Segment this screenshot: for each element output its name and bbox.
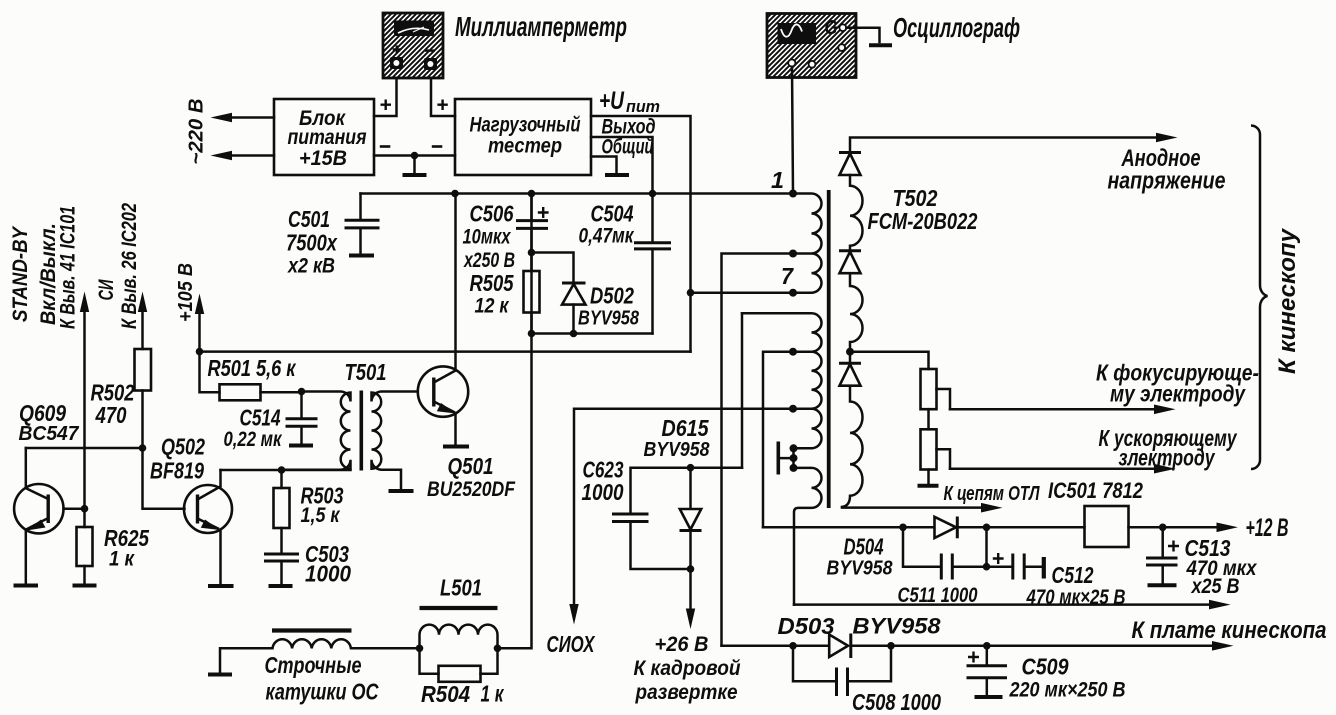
svg-text:К кадровой: К кадровой: [634, 657, 741, 680]
svg-text:1000: 1000: [582, 479, 624, 505]
capacitor C501: [345, 194, 380, 256]
resistor R503: [274, 470, 290, 552]
junction dot L501 right: [494, 645, 502, 653]
inductor L501: [420, 608, 498, 648]
svg-text:470: 470: [95, 402, 127, 428]
diode D502: [532, 253, 586, 334]
junction dot pin 7: [789, 289, 797, 297]
svg-text:D504: D504: [844, 534, 884, 560]
diode D504: [935, 517, 1085, 539]
minus sign right: [432, 145, 443, 148]
junction dot bus x531.5: [528, 190, 536, 198]
capacitor C623: [612, 514, 691, 569]
svg-text:BC547: BC547: [19, 423, 80, 445]
junction dot tap y408: [789, 405, 797, 413]
IC501 regulator box: [1085, 506, 1129, 547]
svg-text:х250 В: х250 В: [463, 249, 515, 272]
AC mains arrow lower: [228, 154, 274, 157]
oscilloscope probe wire to node 1: [792, 67, 793, 194]
svg-text:C501: C501: [288, 206, 330, 232]
junction dot R502 bottom: [139, 444, 147, 452]
wire tap y351 to +12V rail riser: [763, 352, 793, 528]
wire node to Q502 base: [143, 448, 185, 509]
svg-text:BF819: BF819: [150, 458, 204, 484]
svg-text:R504: R504: [421, 681, 470, 707]
svg-text:BYV958: BYV958: [578, 308, 640, 330]
wire D615 node line: [631, 468, 743, 512]
svg-text:х25 В: х25 В: [1191, 575, 1240, 598]
ground deflection coils: [208, 673, 232, 677]
junction dot HV tap: [846, 348, 854, 356]
junction dot pin tap mid: [789, 250, 797, 258]
svg-text:развертке: развертке: [635, 681, 738, 704]
svg-text:К плате кинескопа: К плате кинескопа: [1132, 617, 1327, 644]
junction dot C509 node: [983, 642, 991, 650]
load tester box Нагрузочный тестер: [455, 99, 591, 175]
wire СИОХ branch: [574, 409, 793, 608]
svg-text:0,47мк: 0,47мк: [579, 225, 635, 248]
capacitor C504: [634, 194, 671, 334]
wire milliammeter right lead to load tester +: [431, 78, 455, 116]
capacitor C508: [793, 646, 891, 696]
minus wire power supply to load tester: [374, 154, 455, 157]
resistor R505: [524, 253, 540, 334]
junction dot +105V node: [196, 348, 204, 356]
junction dot C513 node: [1159, 524, 1167, 532]
resistor R504: [420, 648, 498, 682]
svg-text:~220 В: ~220 В: [186, 99, 208, 165]
wire +Uпит output: [591, 116, 691, 352]
svg-text:BYV958: BYV958: [644, 439, 711, 461]
wire lower winding to unlabeled arrow: [794, 603, 1215, 606]
wire D504 node down: [985, 527, 988, 566]
transformer T502 core: [827, 190, 831, 508]
svg-text:+U: +U: [599, 87, 625, 115]
svg-text:12 к: 12 к: [475, 295, 510, 318]
T502 lower primary winding: [742, 313, 822, 604]
wire HV tap to focus divider: [850, 352, 929, 369]
svg-text:Миллиамперметр: Миллиамперметр: [455, 11, 627, 42]
svg-text:Строчные: Строчные: [265, 652, 362, 678]
svg-text:220 мк×250 В: 220 мк×250 В: [1009, 679, 1126, 702]
wire pin mid tap to x721 riser: [722, 254, 794, 646]
junction dot bus x652.5 (Выход/C504): [649, 190, 657, 198]
+12V rail wire: [763, 526, 934, 529]
svg-text:G: G: [825, 17, 838, 39]
wire milliammeter left lead to power supply +: [374, 78, 397, 116]
power supply box Блок питания +15В: [274, 99, 374, 175]
junction dot R501/C514/T501 node: [298, 388, 306, 396]
junction dot bus x455: [451, 190, 459, 198]
svg-text:10мкх: 10мкх: [463, 226, 512, 249]
label СИ К Выв. 26 IC202 (rotated): [95, 203, 141, 329]
svg-text:напряжение: напряжение: [1108, 168, 1226, 195]
capacitor C506: [516, 194, 549, 253]
svg-text:питания: питания: [288, 126, 367, 149]
focus electrode arrow: [950, 408, 1160, 411]
svg-text:Q502: Q502: [161, 434, 205, 460]
junction dot L501 left: [416, 645, 424, 653]
svg-text:К кинескопу: К кинескопу: [1274, 227, 1301, 374]
svg-text:L501: L501: [440, 575, 482, 601]
svg-text:C509: C509: [1022, 654, 1069, 680]
junction dot D504 anode node: [899, 524, 907, 532]
svg-text:Нагрузочный: Нагрузочный: [470, 114, 581, 137]
К цепям ОТЛ arrow: [842, 506, 987, 509]
junction dot Q609 base: [81, 505, 89, 513]
wire node below R505: [532, 332, 653, 335]
stand-by arrow wire: [83, 308, 86, 509]
winding tap bar symbol: [778, 442, 797, 475]
wire IC501 output to +12V arrow: [1129, 526, 1223, 529]
capacitor C511: [903, 527, 987, 579]
milliammeter PA1: [383, 13, 443, 78]
svg-text:К Выв. 26 IC202: К Выв. 26 IC202: [118, 203, 141, 329]
T502 primary winding pins 1..7: [792, 194, 822, 293]
capacitor C513: [1146, 527, 1179, 585]
svg-text:FCM-20B022: FCM-20B022: [868, 208, 978, 234]
+105V arrow wire: [198, 310, 201, 352]
resistor R502: [135, 349, 152, 448]
svg-text:Осциллограф: Осциллограф: [893, 12, 1020, 43]
svg-text:К цепям ОТЛ: К цепям ОТЛ: [944, 483, 1041, 505]
svg-text:Общий: Общий: [602, 135, 654, 158]
junction dot node 1 pin of T502: [789, 190, 797, 198]
svg-text:+105 В: +105 В: [175, 263, 197, 322]
svg-text:D503: D503: [778, 613, 835, 639]
capacitor C503: [264, 554, 299, 586]
svg-text:К Выв. 41 IC101: К Выв. 41 IC101: [57, 206, 80, 329]
svg-text:тестер: тестер: [488, 135, 562, 158]
svg-text:7: 7: [781, 263, 794, 289]
diode D615: [680, 468, 702, 569]
capacitor C512: [987, 553, 1044, 580]
junction dot D504 cathode node: [983, 524, 991, 532]
svg-text:C506: C506: [470, 201, 514, 227]
ground Q501 emitter: [443, 445, 469, 449]
wire +Uпит rail to +105V node: [200, 350, 691, 353]
junction dot C511/C512 node: [983, 563, 991, 571]
T502 HV secondary with rectifier diodes: [839, 133, 1178, 507]
svg-text:1 к: 1 к: [481, 681, 505, 707]
wire Общий output to ground: [591, 157, 617, 173]
oscilloscope: [767, 14, 856, 78]
ground R625: [73, 584, 97, 588]
svg-text:C504: C504: [591, 201, 634, 227]
svg-text:+15В: +15В: [299, 147, 347, 170]
transformer T501: [282, 391, 418, 490]
plus sign at power supply output: [381, 100, 392, 111]
D503 rail wire: [722, 645, 829, 648]
wire pin 7 to +Uпит riser node: [691, 291, 794, 294]
svg-text:C508 1000: C508 1000: [852, 689, 941, 715]
junction dot pin7 riser: [687, 289, 695, 297]
svg-text:BYV958: BYV958: [827, 558, 894, 580]
capacitor C514: [286, 392, 318, 446]
svg-text:R505: R505: [470, 270, 515, 296]
svg-text:D615: D615: [662, 415, 710, 441]
transistor Q609: [14, 448, 84, 583]
svg-text:СИ: СИ: [95, 279, 118, 301]
svg-text:IC501 7812: IC501 7812: [1048, 478, 1144, 503]
capacitor C509: [967, 646, 1008, 697]
svg-text:злектроду: злектроду: [1119, 445, 1216, 471]
svg-text:1000: 1000: [305, 561, 351, 587]
horizontal deflection coils Строчные катушки ОС: [220, 631, 420, 674]
junction dot D503 anode node: [789, 642, 797, 650]
wire Выход output down to bus: [591, 137, 653, 194]
svg-text:му электроду: му электроду: [1110, 381, 1246, 407]
wire riser x742 down to D615 line: [741, 313, 744, 467]
svg-text:1: 1: [771, 167, 784, 193]
svg-text:T501: T501: [345, 359, 387, 385]
junction dot R503 top node: [278, 466, 286, 474]
plus sign at load tester input: [437, 100, 447, 111]
ground under power supply: [413, 156, 416, 173]
wire L501 node up to flyback node: [498, 194, 532, 649]
junction dot D615 top: [687, 464, 695, 472]
ground under Общий: [605, 173, 629, 177]
svg-text:7500х: 7500х: [286, 230, 338, 256]
oscilloscope ground wire: [846, 28, 879, 42]
svg-text:пит: пит: [626, 97, 660, 116]
svg-text:х2 кВ: х2 кВ: [287, 255, 335, 278]
СИ arrow wire: [141, 308, 144, 349]
junction dot D615 bottom: [687, 565, 695, 573]
AC mains arrow upper: [228, 116, 274, 119]
arrowhead К плате кинескопа: [1212, 641, 1234, 651]
svg-text:Q501: Q501: [448, 453, 494, 479]
junction dot below C506: [528, 249, 536, 257]
svg-text:1 к: 1 к: [109, 548, 135, 571]
bus wire node 1 rail: [361, 192, 794, 195]
wire Q502 collector to T501 primary bottom: [221, 469, 351, 472]
svg-text:0,22 мк: 0,22 мк: [224, 428, 283, 451]
svg-text:R501 5,6 к: R501 5,6 к: [208, 355, 297, 381]
transistor Q501: [418, 194, 468, 444]
svg-text:катушки ОС: катушки ОС: [266, 679, 379, 705]
label STAND-BY Вкл/Выкл. К Выв. 41 IC101 (rotated): [9, 206, 80, 329]
minus sign left: [380, 145, 391, 148]
junction dot D502 bottom: [570, 330, 578, 338]
svg-text:BYV958: BYV958: [853, 614, 942, 639]
brace К кинескопу: [1251, 126, 1268, 470]
oscilloscope ground bar: [869, 43, 892, 47]
focus divider resistor lower: [921, 409, 951, 483]
svg-text:C514: C514: [240, 405, 281, 431]
svg-text:C512: C512: [1052, 562, 1094, 588]
junction on minus wire: [411, 152, 419, 160]
svg-text:+26 В: +26 В: [655, 633, 709, 656]
ground T501 secondary: [389, 489, 414, 493]
svg-text:STAND-BY: STAND-BY: [9, 225, 32, 322]
ground Q609 emitter: [14, 584, 39, 588]
focus divider resistor upper: [921, 369, 951, 409]
svg-text:BU2520DF: BU2520DF: [427, 478, 516, 501]
svg-text:1,5 к: 1,5 к: [301, 504, 341, 527]
resistor R501: [200, 352, 302, 401]
wire Q609 collector to base node of Q502: [26, 447, 143, 450]
svg-text:СИОХ: СИОХ: [547, 631, 596, 657]
junction dot D503 cathode node: [887, 642, 895, 650]
svg-text:+12 В: +12 В: [1246, 514, 1289, 542]
accelerating electrode arrow: [950, 467, 1160, 470]
junction dot R505 bottom: [528, 330, 536, 338]
transistor Q502: [184, 470, 232, 584]
diode D503: [829, 634, 1218, 659]
ground Q502 emitter: [208, 584, 234, 588]
junction dot tap y351: [789, 348, 797, 356]
resistor R625: [77, 509, 93, 583]
svg-text:D502: D502: [590, 283, 634, 309]
ground focus divider: [918, 484, 939, 488]
+26V arrow: [689, 569, 692, 612]
